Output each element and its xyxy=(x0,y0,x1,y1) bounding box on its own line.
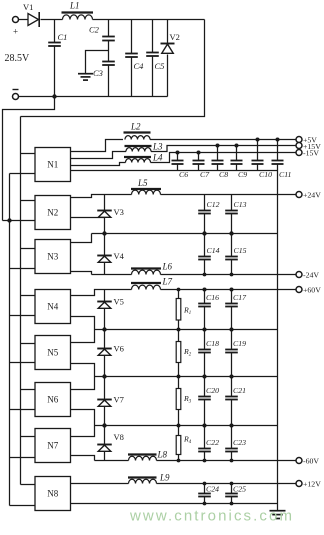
node R1 top xyxy=(177,288,181,292)
wire L1 to top-right corner rail xyxy=(93,19,205,21)
svg-text:N8: N8 xyxy=(47,489,58,499)
svg-text:C11: C11 xyxy=(279,170,292,179)
svg-text:28.5V: 28.5V xyxy=(5,53,31,64)
capacitor C14 xyxy=(198,234,219,275)
wire negative rail (bottom of top section) xyxy=(18,96,167,98)
output terminal +60V xyxy=(296,285,321,294)
svg-text:N7: N7 xyxy=(47,441,58,451)
ground (bottom right) xyxy=(270,504,286,519)
converter block N8 xyxy=(35,477,71,511)
svg-text:L7: L7 xyxy=(162,277,173,287)
converter block N7 xyxy=(35,429,71,463)
wire N2 lower left pin from - rail xyxy=(3,220,36,222)
inductor L8 xyxy=(128,450,168,461)
wire -60V rail xyxy=(157,460,297,462)
node C17 bottom xyxy=(230,328,234,332)
svg-text:-24V: -24V xyxy=(303,270,319,279)
inductor L6 xyxy=(131,262,173,275)
diode V6 xyxy=(97,330,124,377)
converter block N5 xyxy=(35,336,71,370)
svg-text:N1: N1 xyxy=(47,160,58,170)
capacitor C25 xyxy=(225,484,246,504)
node C22 bottom xyxy=(203,459,207,463)
capacitor C4 xyxy=(125,20,144,97)
svg-text:C8: C8 xyxy=(219,170,228,179)
node C9 top junction xyxy=(235,144,239,148)
svg-text:V6: V6 xyxy=(114,344,124,354)
converter block N6 xyxy=(35,383,71,417)
converter block N4 xyxy=(35,290,71,324)
wire stage rail C xyxy=(95,425,278,427)
node C15 bottom xyxy=(230,273,234,277)
diode V7 xyxy=(97,377,124,426)
capacitor C13 xyxy=(225,195,246,234)
resistor R3 xyxy=(176,377,192,426)
wire N1-N8 upper left pins from + bus xyxy=(21,154,36,485)
wire + feed bus vertical x=20.5 xyxy=(20,117,22,485)
wire +60V rail xyxy=(161,289,297,291)
capacitor C9 xyxy=(231,146,248,180)
svg-text:V5: V5 xyxy=(114,297,124,307)
node C13 bottom xyxy=(229,231,233,235)
capacitor C23 xyxy=(225,426,246,461)
svg-text:N6: N6 xyxy=(47,395,58,405)
node C10 top junction xyxy=(256,138,260,142)
svg-text:L2: L2 xyxy=(130,122,141,132)
resistor R2 xyxy=(176,330,192,377)
node C25 bottom xyxy=(230,502,234,506)
node C24 top xyxy=(203,482,207,486)
node R1 bottom xyxy=(177,328,181,332)
wire - feed bus vertical x=9.5 xyxy=(9,174,11,506)
wire N3 upper right pin jog to mid rail xyxy=(71,234,92,243)
capacitor C3 xyxy=(93,51,115,97)
inductor L1 xyxy=(62,1,94,20)
inductor L2 xyxy=(124,122,151,140)
converter block N2 xyxy=(35,196,71,230)
node V6 anode junction xyxy=(102,374,106,378)
svg-text:C5: C5 xyxy=(155,61,165,71)
wire + feed: right edge down and across to left feed bus xyxy=(21,20,205,117)
output terminal +15V xyxy=(296,142,321,151)
capacitor C11 xyxy=(272,140,292,180)
svg-text:C21: C21 xyxy=(233,386,246,395)
capacitor C22 xyxy=(198,426,219,461)
node C12 bottom xyxy=(202,231,206,235)
node C18 bottom xyxy=(203,375,207,379)
wire +24V rail xyxy=(161,194,297,196)
svg-text:C3: C3 xyxy=(93,68,103,78)
ground (top section) xyxy=(78,74,93,80)
svg-text:C9: C9 xyxy=(238,170,247,179)
inductor L4 xyxy=(124,153,163,163)
wire + terminal to V1 to C1 node xyxy=(18,19,54,21)
wire N3 lower right pin xyxy=(71,272,92,275)
svg-text:C20: C20 xyxy=(206,386,219,395)
node R4 top xyxy=(177,424,181,428)
node C16 bottom xyxy=(203,328,207,332)
svg-text:C16: C16 xyxy=(206,293,219,302)
svg-text:L1: L1 xyxy=(69,1,80,11)
node R3 bottom xyxy=(177,424,181,428)
svg-text:C22: C22 xyxy=(206,438,219,447)
zener diode V2 xyxy=(161,20,180,97)
node C7 top junction xyxy=(197,151,201,155)
svg-text:L6: L6 xyxy=(162,262,173,272)
wire N1 pin2 to L3 xyxy=(71,152,127,159)
svg-text:L8: L8 xyxy=(157,450,168,460)
svg-text:L3: L3 xyxy=(152,142,163,152)
resistor R4 xyxy=(176,426,192,461)
svg-text:C19: C19 xyxy=(233,339,246,348)
svg-text:C6: C6 xyxy=(179,170,188,179)
svg-text:www.cntronics.com: www.cntronics.com xyxy=(129,508,294,525)
node C24 bottom xyxy=(203,502,207,506)
wire L3 out jog to +15V rail xyxy=(151,146,297,152)
svg-text:V1: V1 xyxy=(23,2,33,12)
node C21 top xyxy=(230,375,234,379)
wire N8 upper right pin to L9 xyxy=(71,483,129,485)
converter block N3 xyxy=(35,240,71,274)
wire N1 pin4 common rail xyxy=(71,170,278,172)
capacitor C19 xyxy=(225,330,246,377)
svg-text:V3: V3 xyxy=(114,207,124,217)
inductor L3 xyxy=(125,142,164,152)
wire V8 anode to L8 xyxy=(95,460,129,462)
svg-text:L5: L5 xyxy=(137,178,148,188)
node C19 top xyxy=(230,328,234,332)
node C23 bottom xyxy=(230,459,234,463)
node C19 bottom xyxy=(230,375,234,379)
wire N4 upper right pin jog to +60V line xyxy=(71,290,132,296)
capacitor C1 xyxy=(48,20,67,97)
input terminal + (positive, 28.5V) xyxy=(13,17,19,37)
node V3 anode junction xyxy=(102,231,106,235)
wire stage rail A (0V of +-60V upper) xyxy=(95,329,278,331)
capacitor C15 xyxy=(225,234,246,275)
wire mid rail 0V (+-24V common) xyxy=(92,233,278,235)
wire N7 lower pin jog down to -60V line xyxy=(71,456,95,461)
output terminal -24V xyxy=(296,270,319,279)
inductor L9 xyxy=(128,473,170,484)
node V5 anode junction xyxy=(102,327,106,331)
node C6 top junction xyxy=(176,151,180,155)
svg-text:+12V: +12V xyxy=(303,479,321,488)
wire L4 out jog to -15V rail xyxy=(151,153,297,163)
capacitor C10 xyxy=(252,140,273,180)
svg-text:-15V: -15V xyxy=(303,148,319,157)
node C17 top xyxy=(230,288,234,292)
diode V4 xyxy=(97,234,124,275)
diode V8 xyxy=(97,426,124,461)
svg-text:C14: C14 xyxy=(207,246,220,255)
svg-text:V8: V8 xyxy=(114,432,124,442)
svg-text:V4: V4 xyxy=(114,251,125,261)
node C22 top xyxy=(203,424,207,428)
node C21 bottom xyxy=(230,424,234,428)
wire C2/C3 midpoint tap to ground xyxy=(86,51,109,74)
svg-text:C13: C13 xyxy=(234,200,247,209)
output terminal +5V xyxy=(296,135,317,144)
resistor R1 xyxy=(176,290,191,330)
svg-text:N3: N3 xyxy=(47,252,58,262)
capacitor C18 xyxy=(198,330,219,377)
svg-text:+: + xyxy=(13,27,18,37)
node C11 top junction xyxy=(276,138,280,142)
node C20 top xyxy=(203,375,207,379)
wire N4 lower pin jog down / N5 upper pin jog up xyxy=(71,317,95,343)
wire +12V rail xyxy=(157,483,297,485)
converter block N1 xyxy=(35,148,71,182)
svg-text:+60V: +60V xyxy=(303,285,321,294)
capacitor C5 xyxy=(146,20,164,97)
wire N2 lower right pin xyxy=(71,217,105,219)
svg-text:C7: C7 xyxy=(200,170,210,179)
wire N8 lower right pin / bottom common rail xyxy=(71,503,278,505)
node C8 top junction xyxy=(216,144,220,148)
wire V4 anode to L6 xyxy=(92,274,132,276)
inductor L5 xyxy=(131,178,161,195)
wire - feed: C1 node down-left to outer bus xyxy=(3,97,55,221)
node C1/negative-rail junction xyxy=(52,94,56,98)
wire N1 pin1 to L2 xyxy=(71,140,124,152)
svg-text:C4: C4 xyxy=(134,61,145,71)
wire stage rail B (middle) xyxy=(95,376,278,378)
svg-text:C10: C10 xyxy=(259,170,272,179)
wire N3-N8 lower left pins from - bus xyxy=(10,269,36,506)
svg-text:C23: C23 xyxy=(233,438,246,447)
wire +5V rail xyxy=(150,139,297,141)
node C16 top xyxy=(203,288,207,292)
node R4 bottom xyxy=(177,459,181,463)
node C18 top xyxy=(203,328,207,332)
node R2 bottom xyxy=(177,375,181,379)
node - bus junction at N2 lower pin xyxy=(7,218,11,222)
svg-text:C2: C2 xyxy=(89,25,100,35)
node C14 bottom xyxy=(203,273,207,277)
output terminal -15V xyxy=(296,148,319,157)
capacitor C16 xyxy=(198,290,219,330)
node C20 bottom xyxy=(203,424,207,428)
output terminal -60V xyxy=(296,456,319,465)
diode V5 xyxy=(97,290,124,330)
capacitor C8 xyxy=(212,146,229,180)
watermark www.cntronics.com xyxy=(129,508,294,525)
capacitor C12 xyxy=(198,195,219,234)
node R3 top xyxy=(177,375,181,379)
capacitor C7 xyxy=(193,153,211,180)
wire N6 lower pin jog down / N7 upper pin jog up xyxy=(71,410,95,437)
node C25 top xyxy=(230,482,234,486)
label 28.5V xyxy=(5,53,31,64)
input terminal - (negative) xyxy=(13,90,19,100)
wire C1 node to L1 xyxy=(55,19,63,21)
wire N1 lower left pin xyxy=(10,173,36,175)
svg-text:C1: C1 xyxy=(58,32,68,42)
svg-text:L9: L9 xyxy=(159,473,170,483)
wire common bus vertical (right) xyxy=(277,171,279,504)
svg-text:C24: C24 xyxy=(206,485,219,494)
output terminal +24V xyxy=(296,190,321,199)
node R2 top xyxy=(177,328,181,332)
capacitor C24 xyxy=(198,484,219,504)
wire N1 pin3 to L4 xyxy=(71,163,126,166)
svg-text:C17: C17 xyxy=(233,293,247,302)
output terminal +12V xyxy=(296,479,321,488)
svg-text:C12: C12 xyxy=(207,200,220,209)
svg-text:V2: V2 xyxy=(170,32,180,42)
capacitor C17 xyxy=(225,290,247,330)
svg-text:C15: C15 xyxy=(234,246,247,255)
svg-text:L4: L4 xyxy=(152,153,163,163)
capacitor C6 xyxy=(172,153,189,180)
svg-text:N2: N2 xyxy=(47,208,58,218)
diode V3 xyxy=(97,195,124,234)
svg-text:N4: N4 xyxy=(47,302,58,312)
wire N2 upper right pin jog to L5 line xyxy=(71,195,132,198)
svg-text:N5: N5 xyxy=(47,348,58,358)
capacitor C2 xyxy=(89,20,115,51)
svg-text:+24V: +24V xyxy=(303,190,321,199)
capacitor C21 xyxy=(225,377,246,426)
wire -24V rail xyxy=(161,274,297,276)
node C23 top xyxy=(230,424,234,428)
svg-text:C25: C25 xyxy=(233,485,246,494)
wire N5 lower pin jog down / N6 upper pin jog up xyxy=(71,364,95,390)
node V7 anode junction xyxy=(102,423,106,427)
diode V1 xyxy=(23,2,39,27)
inductor L7 xyxy=(131,277,173,290)
svg-text:-60V: -60V xyxy=(303,456,319,465)
svg-text:V7: V7 xyxy=(114,395,124,405)
svg-text:C18: C18 xyxy=(206,339,219,348)
capacitor C20 xyxy=(198,377,219,426)
